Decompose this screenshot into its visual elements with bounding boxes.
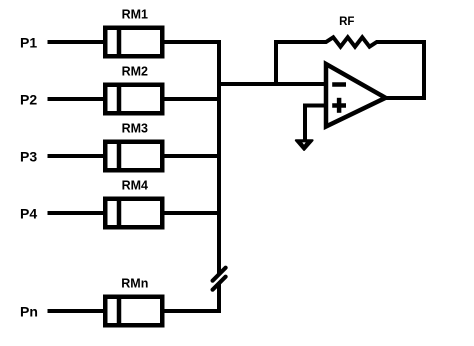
svg-text:P4: P4 (20, 205, 37, 221)
svg-text:RMn: RMn (121, 277, 148, 291)
svg-text:P3: P3 (20, 148, 37, 164)
svg-text:RM1: RM1 (122, 8, 148, 22)
svg-text:RM3: RM3 (122, 122, 148, 136)
svg-text:RM4: RM4 (122, 179, 148, 193)
svg-text:P2: P2 (20, 91, 37, 107)
svg-text:RM2: RM2 (122, 65, 148, 79)
svg-text:RF: RF (339, 16, 354, 28)
svg-text:Pn: Pn (20, 303, 38, 319)
svg-text:P1: P1 (20, 34, 37, 50)
